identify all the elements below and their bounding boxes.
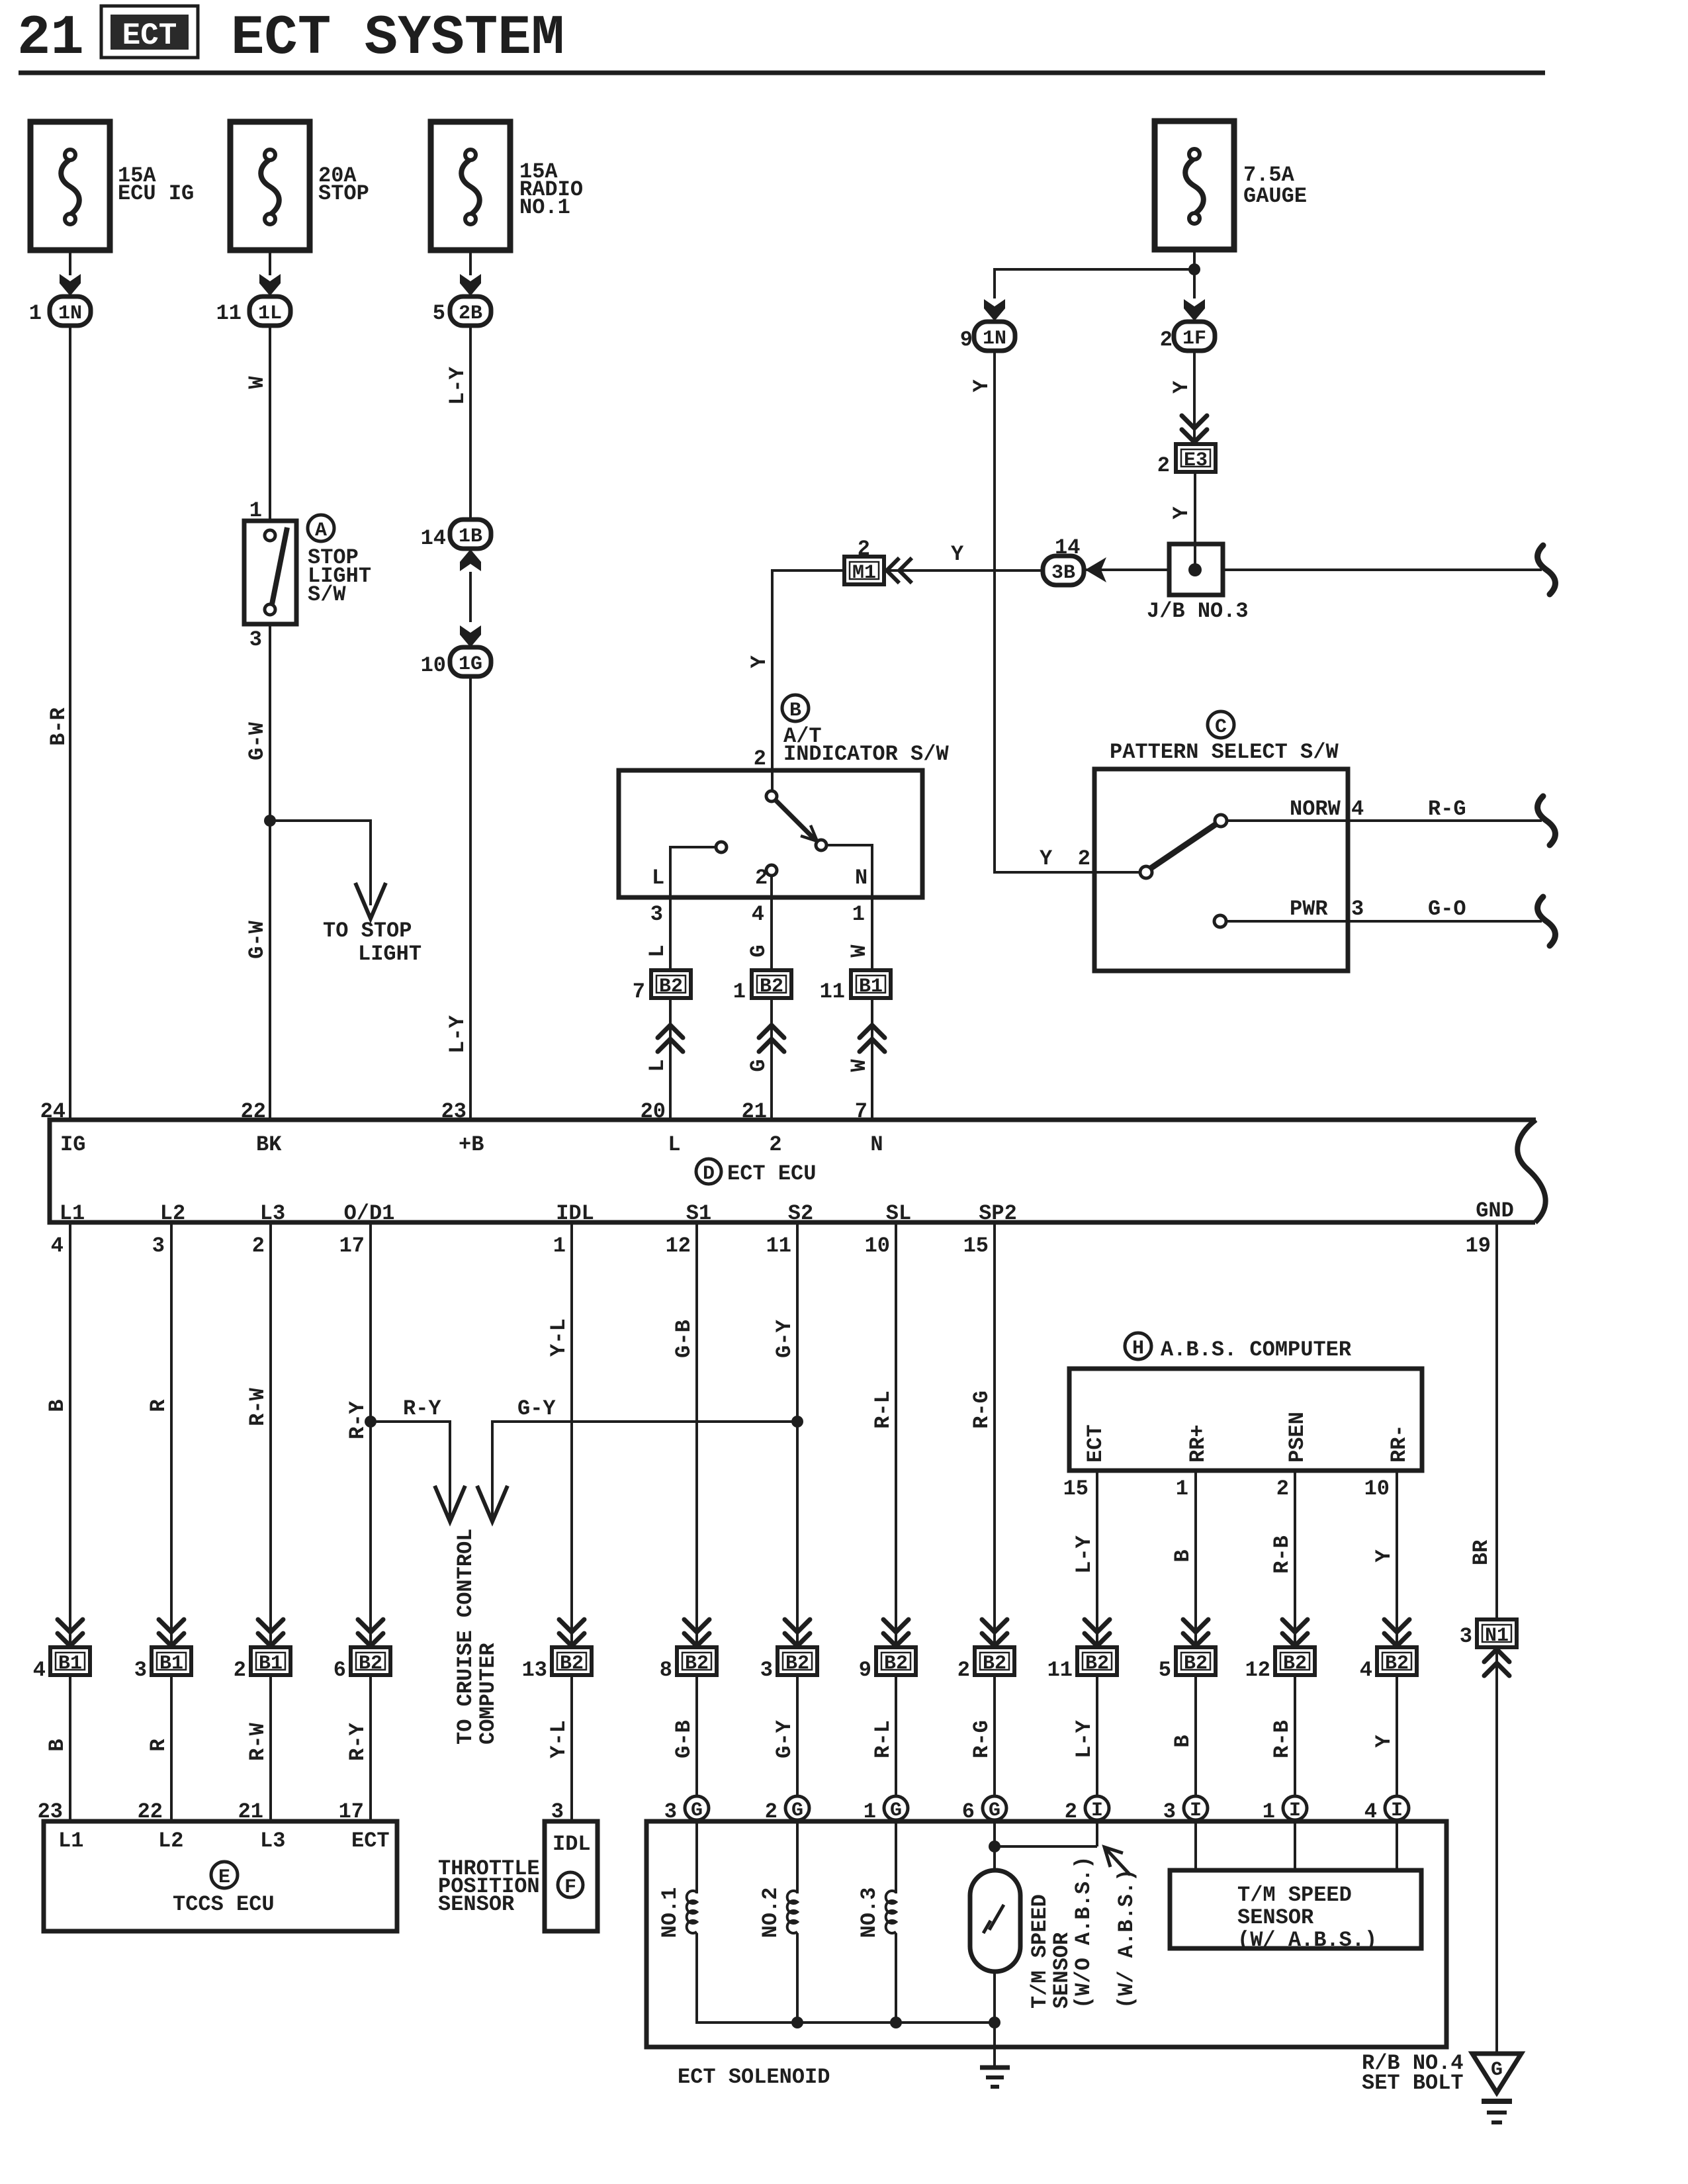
connector 1N pin 9	[974, 322, 1015, 351]
svg-text:F: F	[564, 1876, 576, 1899]
svg-text:A: A	[315, 520, 327, 542]
branch G-Y from S2 to cruise control	[492, 1422, 797, 1518]
svg-text:(W/ A.B.S.): (W/ A.B.S.)	[1237, 1928, 1377, 1952]
junction to ABS ECT line	[989, 1841, 1000, 1852]
svg-text:I: I	[1289, 1799, 1301, 1822]
A.B.S. computer box	[1069, 1369, 1422, 1471]
pattern select NORW contact	[1215, 815, 1227, 827]
svg-text:B: B	[1171, 1549, 1195, 1562]
connector 1G pin 10	[450, 647, 491, 676]
pattern select common contact	[1140, 866, 1152, 878]
junction T/M sensor on bus	[989, 2017, 1000, 2028]
svg-text:R-B: R-B	[1270, 1535, 1294, 1574]
wire from J/B NO.3 to right break	[1223, 569, 1542, 571]
double chevron into B2(13)	[559, 1619, 584, 1646]
wire L-Y from 2B to 1B	[469, 326, 472, 520]
svg-text:12: 12	[666, 1234, 691, 1258]
svg-text:2: 2	[234, 1658, 246, 1682]
svg-text:H: H	[1132, 1338, 1144, 1360]
A/T switch N contact	[816, 840, 826, 850]
svg-text:G: G	[989, 1799, 1000, 1822]
connector G pin 6	[983, 1796, 1006, 1820]
svg-text:R-W: R-W	[245, 1387, 270, 1426]
svg-text:3: 3	[650, 902, 663, 927]
svg-text:4: 4	[1351, 797, 1364, 821]
svg-text:9: 9	[960, 328, 973, 352]
wire RR- Y	[1396, 1471, 1398, 1647]
connector 1N pin 1	[50, 296, 91, 326]
svg-text:I: I	[1190, 1799, 1202, 1822]
arrow up into 1B	[460, 549, 481, 571]
double chevron into B2(2)	[982, 1619, 1007, 1646]
svg-text:8: 8	[660, 1658, 672, 1682]
stop light switch top contact	[265, 530, 275, 541]
svg-text:TO STOP: TO STOP	[323, 919, 412, 943]
wire L-Y from 1G to ECU pin 23	[469, 676, 472, 1120]
svg-text:C: C	[1215, 716, 1227, 739]
svg-text:G-Y: G-Y	[772, 1719, 797, 1758]
junction NO.3 on bus	[890, 2017, 902, 2028]
connector B2 pin 11	[1077, 1647, 1117, 1675]
svg-text:14: 14	[421, 526, 446, 551]
svg-text:ECT SYSTEM: ECT SYSTEM	[231, 7, 564, 70]
svg-text:R: R	[146, 1399, 171, 1412]
svg-text:Y: Y	[1169, 506, 1194, 520]
double chevron into B2(5)	[1183, 1619, 1208, 1646]
double chevron into B2(3)	[785, 1619, 810, 1646]
svg-text:ECU IG: ECU IG	[118, 181, 194, 206]
wire PSEN R-B	[1294, 1471, 1296, 1647]
svg-text:1B: 1B	[459, 525, 482, 548]
wire NO.3 solenoid	[895, 1820, 897, 1893]
stop light switch arm	[272, 527, 287, 604]
J/B NO.3 box	[1169, 544, 1223, 595]
svg-text:4: 4	[752, 902, 764, 927]
connector B2 pin 1	[752, 970, 791, 998]
circle H	[1125, 1333, 1151, 1359]
svg-text:B1: B1	[859, 976, 883, 998]
double chevron pointing left into M1	[887, 558, 912, 583]
svg-text:L2: L2	[160, 1201, 185, 1226]
pattern select PWR contact	[1214, 915, 1226, 927]
svg-text:Y-L: Y-L	[547, 1720, 571, 1758]
wire 1B to 1G	[469, 572, 472, 622]
svg-text:G: G	[1491, 2059, 1503, 2081]
circle B	[782, 695, 809, 721]
double chevron up below B2(1)	[759, 1025, 784, 1052]
wire break right of PWR	[1538, 897, 1556, 946]
svg-text:ECT: ECT	[122, 19, 177, 53]
svg-text:D: D	[703, 1163, 715, 1185]
double chevron into B2(6)	[358, 1619, 383, 1646]
connector 1B pin 14	[450, 520, 491, 549]
svg-text:J/B NO.3: J/B NO.3	[1147, 599, 1249, 623]
arrow to cruise control (R-Y)	[435, 1486, 465, 1522]
wire S1 G-B	[695, 1222, 698, 1647]
svg-text:M1: M1	[852, 562, 876, 584]
connector B1 pin 2	[251, 1647, 290, 1675]
wire RR+ B	[1194, 1471, 1197, 1647]
svg-text:Y: Y	[1040, 846, 1053, 871]
circle F	[558, 1872, 583, 1897]
wire Y from 3B to M1	[887, 569, 1045, 572]
branch R-Y to cruise control	[371, 1422, 450, 1518]
svg-text:GAUGE: GAUGE	[1243, 184, 1307, 208]
connector I pin 1	[1283, 1796, 1307, 1820]
wire from junction to I(2) column	[995, 1845, 1097, 1848]
junction on S2 wire	[791, 1416, 803, 1428]
wire R-B lower to I connector	[1294, 1675, 1296, 1796]
wire L-Y lower to I connector	[1096, 1675, 1098, 1796]
svg-text:TCCS ECU: TCCS ECU	[173, 1892, 275, 1917]
svg-text:Y: Y	[969, 379, 994, 392]
svg-text:B1: B1	[159, 1653, 183, 1675]
svg-text:3B: 3B	[1051, 562, 1075, 584]
svg-text:SENSOR: SENSOR	[1049, 1932, 1074, 2009]
svg-text:2: 2	[1276, 1477, 1289, 1501]
svg-text:10: 10	[865, 1234, 890, 1258]
svg-text:B: B	[45, 1739, 69, 1751]
wire from GAUGE fuse down	[1193, 250, 1196, 298]
svg-text:S2: S2	[788, 1201, 813, 1226]
TCCS ECU box	[44, 1821, 397, 1931]
svg-text:19: 19	[1466, 1234, 1491, 1258]
svg-text:R-G: R-G	[969, 1390, 994, 1429]
ground bars below G	[1482, 2099, 1512, 2104]
svg-text:2: 2	[754, 747, 766, 771]
svg-text:11: 11	[820, 979, 845, 1004]
svg-text:3: 3	[1460, 1624, 1472, 1649]
ground triangle G	[1472, 2054, 1521, 2093]
wire B lower to I connector	[1194, 1675, 1197, 1796]
svg-text:Y: Y	[1372, 1549, 1396, 1563]
double chevron into B2(9)	[883, 1619, 909, 1646]
wire I(2) down to junction line	[1096, 1820, 1098, 1846]
svg-text:BR: BR	[1469, 1539, 1493, 1565]
junction on stop light wire	[264, 815, 276, 827]
wire Y from 1N(9) down to pattern select switch	[995, 351, 1140, 872]
junction below gauge fuse	[1188, 263, 1200, 275]
ECT ECU band right break	[1517, 1120, 1545, 1222]
svg-text:INDICATOR S/W: INDICATOR S/W	[783, 742, 949, 766]
ground below ECT solenoid box	[980, 2066, 1010, 2070]
double chevron into E3	[1182, 416, 1207, 442]
svg-text:SENSOR: SENSOR	[1237, 1905, 1314, 1930]
svg-text:NORW: NORW	[1290, 797, 1341, 821]
connector B2 pin 4	[1377, 1647, 1417, 1675]
wire branch to stop light	[270, 821, 371, 905]
svg-text:3: 3	[760, 1658, 773, 1682]
wire from 2 contact to pin 4	[770, 876, 773, 970]
connector B1 pin 11	[851, 970, 891, 998]
svg-text:NO.1: NO.1	[658, 1888, 682, 1938]
svg-text:B2: B2	[359, 1653, 382, 1675]
throttle position sensor box	[545, 1821, 598, 1931]
svg-text:10: 10	[421, 653, 446, 678]
svg-text:2: 2	[252, 1234, 265, 1258]
wire Y lower to I connector	[1396, 1675, 1398, 1796]
wire from L contact to pin 3	[670, 847, 716, 970]
svg-text:1: 1	[733, 979, 746, 1004]
svg-text:L-Y: L-Y	[1072, 1535, 1096, 1573]
svg-text:G: G	[691, 1799, 703, 1822]
svg-text:G-W: G-W	[245, 721, 269, 760]
wire break right of NORW	[1538, 796, 1556, 845]
svg-text:T/M SPEED: T/M SPEED	[1028, 1894, 1052, 2009]
wire RR+ into sensor box	[1194, 1820, 1197, 1870]
connector B2 pin 13	[552, 1647, 592, 1675]
wire T/M speed sensor w/o ABS	[993, 1820, 996, 1870]
svg-text:L-Y: L-Y	[445, 366, 470, 404]
svg-text:L: L	[645, 944, 670, 957]
wire G-W from stop light switch to ECU pin 22	[269, 624, 271, 1120]
svg-text:2: 2	[858, 537, 870, 561]
svg-text:E3: E3	[1184, 449, 1208, 472]
A/T switch arm with arrowhead	[776, 800, 815, 840]
svg-text:Y-L: Y-L	[547, 1318, 571, 1357]
svg-text:1: 1	[852, 902, 865, 927]
svg-text:ECT: ECT	[1083, 1424, 1108, 1463]
wire ECT lower to TCCS	[369, 1675, 372, 1821]
wire branch to connector 1N pin 9	[995, 269, 1194, 298]
svg-text:11: 11	[1047, 1658, 1073, 1682]
svg-text:5: 5	[433, 301, 445, 326]
svg-text:RR+: RR+	[1186, 1424, 1210, 1463]
svg-text:L: L	[645, 1059, 670, 1071]
wire L2 lower to TCCS	[170, 1675, 173, 1821]
svg-text:6: 6	[333, 1658, 346, 1682]
wire break right of J/B	[1538, 545, 1556, 594]
connector B1 pin 3	[152, 1647, 191, 1675]
circle E	[211, 1862, 238, 1888]
wire Y from 1F to E3	[1193, 351, 1196, 444]
svg-text:11: 11	[766, 1234, 791, 1258]
double chevron up below B2(7)	[658, 1025, 683, 1052]
svg-text:STOP: STOP	[318, 181, 369, 206]
title rule	[19, 71, 1545, 75]
svg-text:B-R: B-R	[46, 707, 71, 745]
svg-text:COMPUTER: COMPUTER	[476, 1643, 500, 1745]
svg-text:2: 2	[755, 866, 768, 890]
svg-text:B2: B2	[1283, 1653, 1307, 1675]
connector G pin 1	[884, 1796, 908, 1820]
svg-text:SP2: SP2	[979, 1201, 1017, 1226]
circle C	[1208, 711, 1234, 738]
double chevron into B2(12)	[1282, 1619, 1308, 1646]
wire ECT L-Y	[1096, 1471, 1098, 1647]
svg-text:1N: 1N	[58, 302, 82, 325]
svg-text:R-W: R-W	[245, 1722, 270, 1760]
svg-text:ECT: ECT	[351, 1829, 390, 1853]
wire fuse ECU IG to connector 1N	[69, 250, 71, 275]
double chevron into B2(8)	[684, 1619, 709, 1646]
svg-text:1: 1	[553, 1234, 566, 1258]
svg-text:BK: BK	[256, 1132, 282, 1157]
svg-text:1: 1	[1176, 1477, 1188, 1501]
pattern select switch arm	[1151, 824, 1216, 868]
svg-text:Y: Y	[951, 542, 964, 567]
svg-text:L2: L2	[158, 1829, 183, 1853]
solid arrow pointing left into 3B	[1085, 557, 1106, 582]
svg-text:B2: B2	[983, 1653, 1006, 1675]
circle D ECT ECU	[696, 1159, 721, 1184]
connector B1 pin 4	[50, 1647, 90, 1675]
wire SL R-L	[895, 1222, 897, 1647]
svg-text:N1: N1	[1485, 1625, 1509, 1647]
junction NO.2 on bus	[791, 2017, 803, 2028]
svg-text:1G: 1G	[459, 653, 482, 676]
svg-text:1: 1	[29, 301, 42, 326]
connector I pin 4	[1385, 1796, 1409, 1820]
svg-text:LIGHT: LIGHT	[358, 942, 422, 966]
wire below NO.2 coil	[796, 1933, 799, 2023]
wire SP2 lower to G connector	[993, 1675, 996, 1796]
svg-text:2: 2	[769, 1132, 781, 1157]
wire SL lower to G connector	[895, 1675, 897, 1796]
svg-text:B1: B1	[58, 1653, 82, 1675]
svg-text:PWR: PWR	[1290, 897, 1328, 921]
svg-text:B2: B2	[1385, 1653, 1409, 1675]
wire PSEN into sensor box	[1294, 1820, 1296, 1870]
svg-text:(W/O A.B.S.): (W/O A.B.S.)	[1071, 1856, 1096, 2009]
connector G pin 3	[685, 1796, 709, 1820]
wire GND BR	[1495, 1222, 1498, 1619]
svg-text:RR-: RR-	[1387, 1424, 1411, 1463]
svg-text:10: 10	[1364, 1477, 1390, 1501]
arrow to stop light	[355, 883, 386, 919]
svg-text:L3: L3	[260, 1829, 285, 1853]
svg-text:2: 2	[957, 1658, 970, 1682]
svg-text:1L: 1L	[258, 302, 282, 325]
ground stub below ECT solenoid box	[993, 2047, 996, 2068]
wire L3 R-W	[269, 1222, 272, 1647]
svg-text:G: G	[791, 1799, 803, 1822]
double chevron into B2(4)	[1384, 1619, 1409, 1646]
svg-text:R: R	[146, 1739, 171, 1752]
wire NO.1 solenoid	[695, 1820, 698, 1893]
wire RR- into sensor box	[1396, 1820, 1398, 1870]
arrow into 1F	[1184, 299, 1205, 321]
svg-text:SENSOR: SENSOR	[438, 1892, 515, 1917]
svg-text:B2: B2	[560, 1653, 584, 1675]
svg-text:15: 15	[963, 1234, 989, 1258]
connector B2 pin 8	[677, 1647, 717, 1675]
svg-text:2: 2	[1160, 328, 1173, 352]
svg-text:B: B	[1171, 1735, 1195, 1747]
svg-text:W: W	[847, 944, 871, 958]
connector 1L pin 11	[249, 296, 290, 326]
svg-text:5: 5	[1159, 1658, 1171, 1682]
svg-text:B1: B1	[259, 1653, 283, 1675]
circle A	[308, 515, 334, 541]
A/T switch L contact	[716, 842, 727, 852]
connector B2 pin 5	[1176, 1647, 1216, 1675]
svg-text:IDL: IDL	[556, 1201, 594, 1226]
svg-text:R-G: R-G	[969, 1720, 994, 1758]
svg-text:SET BOLT: SET BOLT	[1362, 2071, 1464, 2095]
connector M1 pin 2	[844, 557, 884, 584]
annotation arrow W/ ABS	[1104, 1847, 1130, 1875]
svg-text:B2: B2	[1085, 1653, 1109, 1675]
svg-text:L-Y: L-Y	[1072, 1719, 1096, 1758]
svg-text:G: G	[746, 944, 771, 957]
A/T indicator switch box	[619, 770, 922, 897]
connector 2B pin 5	[450, 296, 491, 326]
svg-text:(W/ A.B.S.): (W/ A.B.S.)	[1114, 1869, 1139, 2009]
svg-text:4: 4	[51, 1234, 64, 1258]
svg-text:G-O: G-O	[1428, 897, 1466, 921]
T/M speed sensor (W/O ABS) body	[970, 1870, 1020, 1972]
stop light switch bottom contact	[265, 604, 275, 615]
wire L3 lower to TCCS	[269, 1675, 272, 1821]
svg-text:R-B: R-B	[1270, 1720, 1294, 1758]
svg-text:O/D1: O/D1	[344, 1201, 395, 1226]
wire from M1 to A/T indicator switch pin 2	[772, 570, 844, 794]
wire L1 lower to TCCS	[69, 1675, 71, 1821]
junction inside J/B NO.3	[1188, 563, 1202, 576]
fuse 7.5A GAUGE	[1155, 121, 1234, 250]
svg-text:S/W: S/W	[308, 582, 346, 607]
svg-text:7: 7	[633, 979, 645, 1004]
arrow into 1L	[259, 274, 281, 296]
wire fuse RADIO to connector 2B	[469, 250, 472, 275]
svg-text:R-Y: R-Y	[345, 1722, 370, 1760]
ECT solenoid box	[646, 1821, 1446, 2047]
wire PWR pin 3 G-O	[1226, 920, 1542, 923]
svg-text:IDL: IDL	[553, 1832, 591, 1856]
connector B2 pin 7	[651, 970, 691, 998]
svg-text:TO CRUISE CONTROL: TO CRUISE CONTROL	[453, 1529, 478, 1745]
svg-text:N: N	[870, 1132, 883, 1157]
T/M speed sensor (W/ ABS) box	[1170, 1870, 1421, 1948]
svg-text:G-W: G-W	[245, 920, 269, 958]
double chevron into B2(11)	[1085, 1619, 1110, 1646]
title: ECT badge box	[101, 6, 198, 58]
connector E3 pin 2	[1176, 444, 1216, 472]
svg-text:W: W	[847, 1059, 871, 1072]
wire fuse STOP to connector 1L	[269, 250, 271, 275]
svg-text:E: E	[218, 1866, 230, 1889]
svg-text:B2: B2	[685, 1653, 709, 1675]
arrow down into 1G	[460, 625, 481, 647]
svg-text:Y: Y	[747, 655, 772, 668]
wire O/D1 R-Y	[369, 1222, 372, 1647]
svg-text:1N: 1N	[983, 328, 1006, 350]
wire IDL lower to TPS	[570, 1675, 573, 1821]
connector G pin 2	[785, 1796, 809, 1820]
svg-text:NO.1: NO.1	[519, 195, 570, 220]
svg-text:ECT SOLENOID: ECT SOLENOID	[678, 2065, 830, 2089]
svg-text:G-Y: G-Y	[772, 1319, 797, 1357]
connector B2 pin 12	[1275, 1647, 1315, 1675]
svg-text:B: B	[45, 1399, 69, 1412]
wire S2 lower to G connector	[796, 1675, 799, 1796]
junction on O/D1 wire	[365, 1416, 377, 1428]
svg-text:IG: IG	[60, 1132, 85, 1157]
svg-text:B2: B2	[1184, 1653, 1208, 1675]
svg-text:11: 11	[216, 301, 242, 326]
svg-text:R-L: R-L	[871, 1720, 895, 1758]
wire W to ECU pin 7	[871, 999, 873, 1120]
svg-text:3: 3	[249, 627, 262, 652]
wire Y from E3 to J/B NO.3	[1194, 472, 1196, 570]
svg-text:I: I	[1391, 1799, 1403, 1822]
svg-text:B2: B2	[760, 976, 783, 998]
wire G to ECU pin 21	[770, 999, 773, 1120]
svg-text:B2: B2	[659, 976, 683, 998]
wire from J/B NO.3 left through 3B to M1	[1083, 569, 1169, 571]
pattern select switch box	[1094, 769, 1348, 971]
